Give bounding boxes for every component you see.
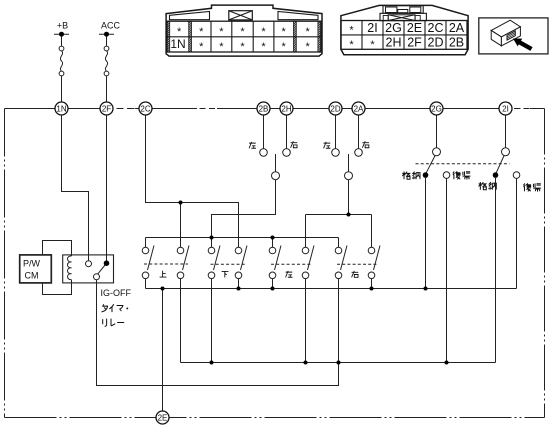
svg-text:2D: 2D: [330, 104, 340, 113]
svg-text:2A: 2A: [449, 21, 465, 35]
svg-text:2B: 2B: [449, 36, 464, 50]
svg-text:ACC: ACC: [101, 21, 121, 31]
svg-text:*: *: [261, 26, 266, 38]
svg-text:1N: 1N: [56, 104, 66, 113]
svg-text:*: *: [219, 26, 224, 38]
svg-text:*: *: [240, 26, 245, 38]
svg-text:2D: 2D: [428, 36, 444, 50]
svg-text:2F: 2F: [102, 104, 111, 113]
svg-text:*: *: [177, 26, 182, 38]
svg-text:2I: 2I: [502, 104, 509, 113]
svg-text:+B: +B: [57, 21, 68, 31]
svg-text:*: *: [349, 39, 354, 51]
svg-text:*: *: [199, 26, 204, 38]
svg-text:P/W: P/W: [23, 259, 41, 269]
svg-text:1N: 1N: [170, 37, 185, 51]
svg-text:2I: 2I: [367, 21, 377, 35]
svg-text:2E: 2E: [407, 21, 422, 35]
svg-text:2F: 2F: [407, 36, 422, 50]
svg-text:*: *: [282, 26, 287, 38]
svg-text:2H: 2H: [281, 104, 291, 113]
svg-text:*: *: [261, 41, 266, 53]
svg-text:2C: 2C: [140, 104, 150, 113]
svg-text:2G: 2G: [385, 21, 402, 35]
svg-text:2C: 2C: [428, 21, 444, 35]
svg-text:*: *: [282, 41, 287, 53]
svg-text:2H: 2H: [386, 36, 402, 50]
svg-text:2A: 2A: [354, 104, 364, 113]
svg-text:*: *: [349, 25, 354, 37]
svg-text:*: *: [306, 26, 311, 38]
svg-text:*: *: [199, 41, 204, 53]
svg-text:*: *: [370, 39, 375, 51]
svg-text:2G: 2G: [431, 104, 442, 113]
svg-text:IG-OFF: IG-OFF: [101, 288, 132, 298]
svg-text:CM: CM: [25, 271, 39, 281]
svg-text:2B: 2B: [259, 104, 269, 113]
svg-text:*: *: [240, 41, 245, 53]
svg-text:*: *: [219, 41, 224, 53]
svg-text:*: *: [306, 41, 311, 53]
svg-text:2E: 2E: [158, 413, 168, 422]
